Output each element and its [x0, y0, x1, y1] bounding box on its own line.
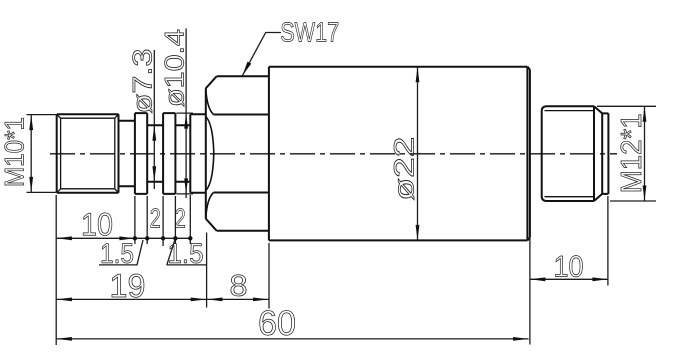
- dim line 60: [56, 338, 528, 340]
- phi10.4 extension ticks: [177, 113, 194, 194]
- dim line 10 right: [530, 278, 608, 280]
- thread M10 minor diameter lines: [61, 118, 115, 189]
- svg-text:10: 10: [553, 251, 583, 284]
- bottom extension line left end: [55, 195, 57, 345]
- chain dots: [133, 236, 137, 240]
- extension line body start: [268, 243, 270, 309]
- svg-text:60: 60: [258, 304, 296, 343]
- svg-text:SW17: SW17: [280, 17, 339, 48]
- dim 10 right arrows: [530, 277, 546, 281]
- svg-text:M10*1: M10*1: [0, 117, 30, 187]
- centerline: [50, 153, 617, 155]
- M10 extension lines: [27, 115, 57, 193]
- thread M12 end tip: [602, 113, 608, 193]
- svg-text:ø7.3: ø7.3: [128, 49, 158, 114]
- hex face edges: [214, 115, 269, 193]
- neck: [119, 121, 135, 186]
- thread M12 end chamfer: [594, 106, 602, 201]
- dim 19 arrows: [56, 298, 72, 302]
- hex chamfer arcs: [206, 88, 214, 218]
- chain extension lines: [135, 195, 190, 246]
- svg-text:8: 8: [229, 270, 247, 303]
- collar before hex (2 wide): [190, 114, 206, 193]
- dim 60 arrows: [56, 337, 72, 341]
- M12 extension lines: [597, 106, 656, 201]
- thread M12 minor diameter lines: [545, 111, 595, 197]
- label 1.5 shelf 1: [99, 240, 143, 265]
- SW17 leader arrow: [242, 62, 251, 76]
- phi10.4 arrows: [184, 113, 188, 129]
- svg-text:19: 19: [109, 267, 145, 304]
- phi22 dimension line: [417, 67, 419, 241]
- rib 1 (1.5 wide): [135, 113, 147, 194]
- SW17 leader: [242, 33, 281, 76]
- phi10.4 dimension line: [185, 28, 187, 198]
- svg-text:2: 2: [150, 203, 161, 233]
- body phi22: [269, 67, 530, 241]
- svg-text:1.5: 1.5: [167, 238, 203, 269]
- svg-text:1.5: 1.5: [100, 238, 134, 269]
- hex SW17 silhouette: [206, 76, 269, 230]
- svg-text:M12*1: M12*1: [616, 113, 648, 193]
- M10 arrows: [29, 115, 33, 131]
- extension line hex start: [206, 233, 208, 308]
- thread M10 outer body: [57, 114, 119, 193]
- label 1.5 shelf 2: [167, 240, 207, 265]
- extension line thread M12 end: [607, 196, 609, 286]
- dim 8 arrows: [207, 298, 223, 302]
- phi7.3 dimension line: [153, 50, 155, 189]
- groove 2 (phi 10.4 zone): [175, 125, 190, 181]
- dim line 19 and 8: [56, 298, 268, 300]
- dim line 10 + chain: [56, 237, 190, 239]
- thread M10 corner chamfers: [57, 114, 119, 193]
- svg-text:ø22: ø22: [389, 137, 420, 201]
- thread M12 body: [542, 106, 594, 201]
- groove 1 (phi 7.3): [147, 125, 163, 181]
- dim 10 arrows: [56, 236, 72, 240]
- extension line body end: [529, 238, 531, 345]
- svg-text:ø10.4: ø10.4: [160, 29, 190, 107]
- svg-text:10: 10: [81, 206, 113, 242]
- M12 dimension line: [644, 106, 646, 201]
- M10 dimension line: [30, 115, 32, 193]
- svg-text:2: 2: [175, 203, 186, 233]
- M12 arrows: [643, 106, 647, 122]
- phi7.3 arrows: [152, 125, 156, 141]
- rib 2 (1.5 wide): [163, 113, 175, 194]
- arrowheads: [29, 62, 646, 341]
- phi22 arrows: [416, 67, 420, 83]
